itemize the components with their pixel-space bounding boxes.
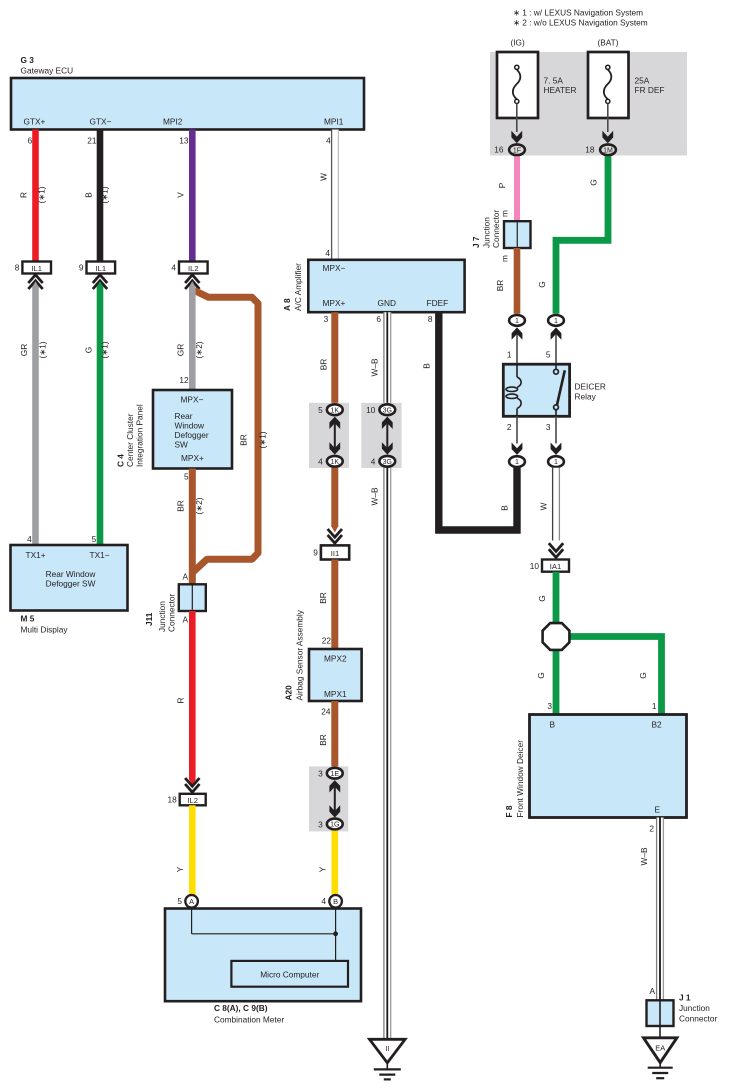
svg-text:A: A: [189, 897, 194, 906]
wire BR (*1) bypass around C4: [193, 291, 259, 573]
svg-text:1F: 1F: [513, 147, 521, 154]
svg-text:Rear Window: Rear Window: [46, 569, 97, 579]
svg-text:MPX−: MPX−: [323, 263, 346, 273]
wire W relay to IA1: [553, 468, 560, 541]
power supply rail band: [490, 52, 687, 156]
chevron above IL2-18: [185, 778, 199, 792]
front window deicer F8 box: [530, 715, 687, 818]
wire fuse1 to 1F: [516, 104, 518, 133]
svg-text:10: 10: [366, 405, 376, 415]
svg-text:A: A: [182, 572, 188, 582]
svg-text:FDEF: FDEF: [427, 298, 449, 308]
multi display M5 box: [11, 545, 128, 611]
svg-text:4: 4: [325, 248, 330, 258]
connector panel 3G: [361, 403, 401, 468]
svg-text:MPI2: MPI2: [163, 117, 183, 127]
svg-text:Combination Meter: Combination Meter: [214, 1015, 284, 1025]
svg-text:1: 1: [554, 459, 558, 466]
svg-text:W–B: W–B: [639, 847, 649, 865]
connector oval 1 above relay pin 5: [548, 315, 564, 326]
svg-text:3G: 3G: [383, 459, 392, 466]
svg-text:E: E: [655, 805, 661, 815]
svg-text:C 8(A), C 9(B): C 8(A), C 9(B): [214, 1003, 268, 1013]
svg-text:(∗1): (∗1): [100, 186, 110, 203]
connector panel 1E-1G: [309, 766, 348, 831]
svg-text:B: B: [333, 897, 338, 906]
svg-text:BR: BR: [318, 592, 328, 604]
svg-text:4: 4: [318, 457, 323, 467]
micro computer box: [231, 961, 348, 987]
svg-text:Rear: Rear: [175, 411, 193, 421]
svg-text:1: 1: [515, 459, 519, 466]
meter internal wire from A: [191, 909, 193, 934]
svg-text:IA1: IA1: [550, 562, 561, 571]
svg-text:(∗2): (∗2): [194, 341, 204, 358]
svg-text:BR: BR: [318, 734, 328, 746]
svg-text:12: 12: [179, 375, 189, 385]
wire W-B GND to ground: [384, 312, 391, 1039]
svg-text:F 8: F 8: [504, 805, 514, 817]
svg-text:25A: 25A: [635, 76, 650, 86]
fuse FR DEF 25A: [588, 52, 629, 118]
svg-text:(BAT): (BAT): [597, 38, 618, 48]
svg-text:W–B: W–B: [370, 487, 380, 505]
wire through J1: [659, 1000, 661, 1037]
ground EA hatch: [659, 1063, 661, 1068]
svg-text:1K: 1K: [331, 407, 340, 414]
svg-text:A: A: [649, 986, 655, 996]
svg-text:Defogger: Defogger: [175, 430, 209, 440]
svg-text:21: 21: [87, 136, 97, 146]
svg-text:1G: 1G: [330, 822, 339, 829]
svg-text:BR: BR: [239, 434, 249, 446]
svg-text:Micro Computer: Micro Computer: [260, 970, 319, 980]
fuse HEATER 7.5A: [497, 52, 538, 118]
svg-text:1: 1: [554, 318, 558, 325]
svg-text:B: B: [550, 720, 556, 730]
svg-text:J 1: J 1: [679, 993, 691, 1003]
connector panel 1K: [309, 403, 349, 468]
svg-text:4: 4: [326, 136, 331, 146]
svg-text:5: 5: [318, 405, 323, 415]
svg-text:MPX1: MPX1: [324, 689, 347, 699]
svg-text:B: B: [500, 505, 510, 511]
chevron above II1: [328, 529, 342, 543]
svg-text:7. 5A: 7. 5A: [544, 76, 564, 86]
svg-text:R: R: [19, 192, 29, 198]
wire Y 1G to meter B: [331, 831, 338, 895]
svg-text:G: G: [638, 672, 648, 678]
svg-text:1M: 1M: [603, 147, 613, 154]
junction connector J11 box: [179, 584, 206, 611]
svg-text:B: B: [422, 363, 432, 369]
svg-text:II1: II1: [331, 549, 339, 558]
svg-text:4: 4: [27, 534, 32, 544]
svg-text:B2: B2: [652, 720, 663, 730]
svg-text:5: 5: [184, 472, 189, 482]
svg-text:IL1: IL1: [96, 264, 107, 273]
center cluster integration panel C4 box: [153, 390, 232, 469]
svg-text:GND: GND: [378, 298, 396, 308]
arrow into oval pin1: [516, 328, 518, 364]
svg-text:m: m: [500, 255, 510, 262]
svg-text:II: II: [385, 1044, 389, 1053]
svg-text:6: 6: [28, 136, 33, 146]
svg-text:3G: 3G: [383, 407, 392, 414]
wire G IA1 to octagon: [553, 572, 560, 624]
svg-text:(∗1): (∗1): [37, 186, 47, 203]
double arrow between 1E and 1G: [334, 782, 336, 817]
svg-text:8: 8: [15, 263, 20, 273]
svg-text:EA: EA: [655, 1044, 665, 1053]
svg-text:W: W: [319, 173, 329, 181]
connector oval 1 below relay pin 2: [509, 456, 525, 467]
svg-text:SW: SW: [175, 440, 189, 450]
svg-text:3: 3: [324, 314, 329, 324]
wire BR II1 to A20: [331, 560, 338, 650]
chevron above IA1: [549, 543, 563, 557]
svg-text:G 3: G 3: [21, 55, 35, 65]
svg-text:B: B: [84, 192, 94, 198]
junction octagon node: [543, 623, 570, 650]
svg-text:18: 18: [167, 795, 177, 805]
svg-text:1K: 1K: [331, 459, 340, 466]
svg-text:GR: GR: [19, 344, 29, 356]
svg-text:3: 3: [318, 819, 323, 829]
svg-text:3: 3: [547, 701, 552, 711]
svg-text:IL2: IL2: [187, 796, 198, 805]
svg-text:DEICER: DEICER: [575, 382, 606, 392]
svg-text:MPX+: MPX+: [323, 298, 346, 308]
svg-text:4: 4: [371, 457, 376, 467]
svg-text:GTX−: GTX−: [90, 117, 112, 127]
connector oval 1 above relay pin 1: [509, 315, 525, 326]
chevron under IL2-4: [185, 275, 199, 289]
svg-text:(∗1): (∗1): [258, 431, 268, 448]
wire BR (*2) C4 to J11: [189, 469, 196, 585]
svg-text:BR: BR: [176, 500, 186, 512]
svg-text:4: 4: [321, 896, 326, 906]
svg-text:HEATER: HEATER: [544, 85, 577, 95]
junction connector J1 box: [647, 1000, 674, 1026]
svg-text:G: G: [537, 281, 547, 287]
wire BR J7 to relay oval: [514, 248, 521, 314]
svg-text:1E: 1E: [331, 771, 340, 778]
wire G octagon to F8 pin1: [567, 637, 662, 715]
double arrow between 3G ovals: [386, 418, 388, 453]
svg-text:3: 3: [546, 422, 551, 432]
svg-text:5: 5: [177, 896, 182, 906]
svg-text:Connector: Connector: [167, 593, 177, 632]
svg-text:(∗1): (∗1): [38, 341, 48, 358]
svg-text:IL1: IL1: [31, 264, 42, 273]
svg-text:Defogger SW: Defogger SW: [46, 579, 96, 589]
airbag sensor assembly A20 box: [309, 649, 362, 701]
svg-text:2: 2: [507, 422, 512, 432]
ground EA triangle: [644, 1038, 677, 1063]
meter internal wire from B: [335, 909, 337, 961]
svg-text:W–B: W–B: [370, 358, 380, 376]
svg-text:GTX+: GTX+: [24, 117, 46, 127]
a/c amplifier A8 box: [308, 260, 464, 312]
wire GR (*2) to C4 pin 12: [189, 281, 196, 287]
svg-text:MPX+: MPX+: [181, 453, 204, 463]
svg-text:Junction: Junction: [679, 1003, 710, 1013]
svg-text:Integration Panel: Integration Panel: [135, 404, 145, 467]
svg-text:BR: BR: [319, 359, 329, 371]
wire G octagon to F8 pin3: [553, 649, 560, 715]
deicer relay box: [503, 364, 569, 416]
svg-text:Window: Window: [175, 421, 206, 431]
svg-text:3: 3: [318, 769, 323, 779]
svg-text:G: G: [84, 347, 94, 353]
svg-text:Airbag Sensor Assembly: Airbag Sensor Assembly: [295, 609, 305, 700]
svg-text:9: 9: [313, 548, 318, 558]
wire R J11 to IL2: [189, 611, 196, 780]
svg-text:1: 1: [652, 701, 657, 711]
svg-text:P: P: [497, 182, 507, 188]
wire G (*1) to TX1-: [97, 281, 104, 287]
svg-text:13: 13: [179, 136, 189, 146]
svg-text:1: 1: [507, 350, 512, 360]
wire W-B F8 to J1: [657, 818, 664, 1001]
svg-text:TX1+: TX1+: [26, 550, 46, 560]
svg-text:18: 18: [585, 144, 595, 154]
svg-text:5: 5: [546, 350, 551, 360]
svg-text:Center Cluster: Center Cluster: [125, 413, 135, 467]
svg-text:Y: Y: [175, 866, 185, 872]
svg-text:4: 4: [171, 263, 176, 273]
svg-text:16: 16: [494, 144, 504, 154]
svg-text:m: m: [500, 210, 510, 217]
svg-text:MPI1: MPI1: [324, 117, 344, 127]
svg-text:GR: GR: [176, 344, 186, 356]
svg-text:Multi Display: Multi Display: [21, 625, 69, 635]
svg-text:6: 6: [376, 314, 381, 324]
svg-text:BR: BR: [495, 280, 505, 292]
arrow out of relay pin 2: [516, 416, 518, 443]
svg-text:A 8: A 8: [282, 298, 292, 311]
ground II hatch: [386, 1063, 388, 1069]
wire BR 1K to II1: [331, 468, 338, 527]
arrow out of relay pin 3: [555, 416, 557, 443]
svg-text:A20: A20: [284, 685, 294, 701]
svg-text:IL2: IL2: [188, 264, 199, 273]
svg-text:(∗2): (∗2): [194, 497, 204, 514]
svg-text:C 4: C 4: [116, 454, 126, 467]
junction dot in meter: [333, 931, 338, 936]
svg-text:J 7: J 7: [471, 236, 481, 248]
svg-text:8: 8: [428, 314, 433, 324]
svg-text:24: 24: [321, 707, 331, 717]
double arrow between 1K ovals: [334, 418, 336, 453]
svg-text:TX1−: TX1−: [90, 550, 110, 560]
svg-text:J11: J11: [144, 612, 154, 626]
svg-text:W: W: [539, 502, 549, 510]
svg-text:A/C Amplifier: A/C Amplifier: [293, 263, 303, 311]
svg-text:MPX−: MPX−: [181, 395, 204, 405]
svg-text:Junction: Junction: [157, 601, 167, 632]
wire BR A8 to 1K: [331, 312, 338, 404]
svg-text:(IG): (IG): [510, 38, 525, 48]
wire BR A20 to 1E: [331, 701, 338, 767]
svg-text:MPX2: MPX2: [324, 654, 347, 664]
ground II triangle: [370, 1039, 406, 1063]
wire fuse2 to 1M: [607, 104, 609, 133]
svg-text:10: 10: [530, 561, 540, 571]
svg-text:5: 5: [92, 534, 97, 544]
svg-text:V: V: [176, 192, 186, 198]
svg-text:Connector: Connector: [679, 1014, 718, 1024]
relay coil: [516, 364, 518, 377]
svg-text:9: 9: [79, 263, 84, 273]
svg-text:R: R: [176, 698, 186, 704]
svg-text:G: G: [589, 179, 599, 185]
junction connector J7 box: [504, 221, 531, 248]
svg-text:Y: Y: [318, 866, 328, 872]
wire GR (*1) to TX1+: [32, 281, 39, 287]
svg-text:FR DEF: FR DEF: [635, 85, 665, 95]
wire Y IL2 to meter A: [189, 805, 196, 895]
combination meter box: [165, 909, 361, 1002]
arrow into oval pin5: [555, 328, 557, 364]
gateway ECU G3 box: [11, 78, 364, 130]
svg-text:Junction: Junction: [482, 217, 492, 248]
chevron under IL1-9: [93, 275, 107, 289]
svg-text:1: 1: [515, 318, 519, 325]
svg-text:A: A: [182, 615, 188, 625]
svg-text:∗ 2 : w/o LEXUS Navigation Sys: ∗ 2 : w/o LEXUS Navigation System: [513, 18, 648, 28]
svg-text:Connector: Connector: [491, 209, 501, 248]
chevron under IL1-8: [28, 275, 42, 289]
svg-text:(∗1): (∗1): [100, 341, 110, 358]
connector oval 1 below relay pin 3: [548, 456, 564, 467]
wire G 1M to relay oval: [556, 156, 608, 314]
wire P 1F to J7: [514, 156, 520, 221]
svg-text:2: 2: [649, 824, 654, 834]
relay switch: [555, 364, 557, 369]
wire B FDEF to deicer relay: [439, 312, 517, 530]
svg-text:G: G: [536, 672, 546, 678]
svg-text:Front Window Deicer: Front Window Deicer: [515, 740, 525, 818]
svg-text:∗ 1 : w/ LEXUS Navigation Syst: ∗ 1 : w/ LEXUS Navigation System: [513, 8, 643, 18]
svg-text:Gateway ECU: Gateway ECU: [21, 66, 74, 76]
svg-text:Relay: Relay: [575, 392, 597, 402]
svg-text:G: G: [537, 595, 547, 601]
svg-text:22: 22: [322, 635, 332, 645]
svg-text:M 5: M 5: [21, 614, 35, 624]
